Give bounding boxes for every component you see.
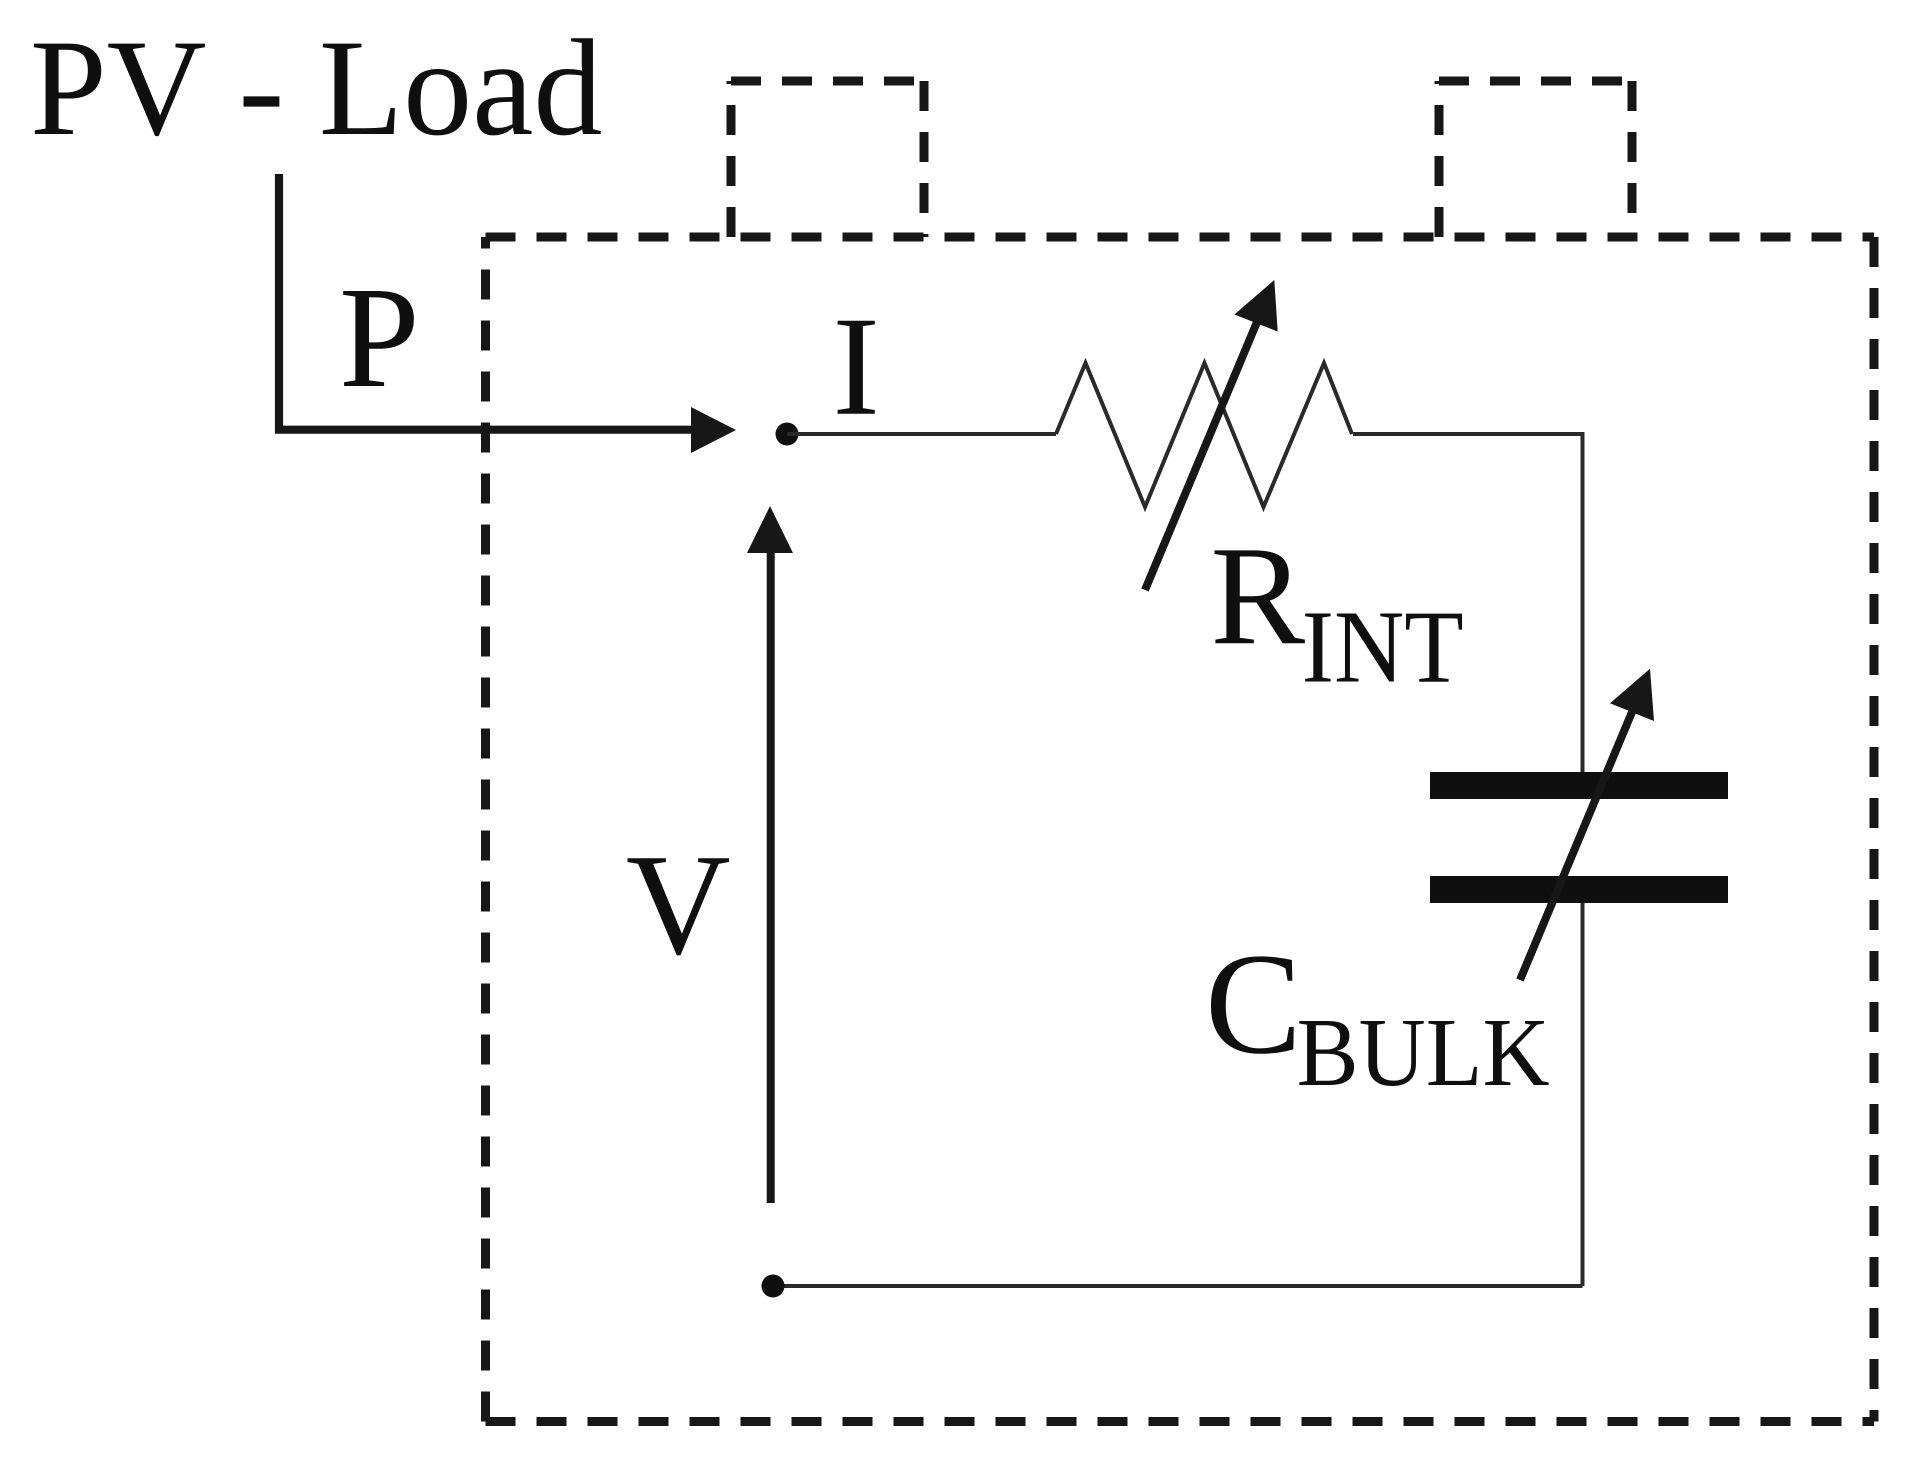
capacitor CBULK top plate	[1430, 772, 1728, 799]
node I (top terminal dot)	[776, 423, 799, 446]
power input arrow P (elbow wire)	[279, 174, 694, 430]
svg-text:V: V	[626, 825, 731, 985]
bottom node dot	[762, 1275, 785, 1298]
svg-text:I: I	[833, 287, 880, 445]
battery terminal tab right (dashed)	[1439, 81, 1632, 237]
svg-text:INT: INT	[1302, 590, 1464, 705]
bottom rail wire	[773, 1284, 1583, 1288]
variable-capacitor arrow through CBULK	[1520, 712, 1632, 980]
variable-resistor arrow through RINT	[1145, 322, 1257, 590]
wire node I to resistor	[787, 432, 1056, 436]
battery outline (dashed box)	[486, 237, 1875, 1422]
wire resistor to capacitor top	[1353, 434, 1583, 772]
voltage arrow V shaft	[767, 550, 775, 1203]
capacitor CBULK bottom plate	[1430, 876, 1728, 903]
arrowhead of V	[747, 506, 793, 553]
svg-text:PV - Load: PV - Load	[30, 11, 602, 164]
svg-text:P: P	[339, 258, 420, 418]
resistor RINT zigzag	[1056, 363, 1352, 507]
battery terminal tab left (dashed)	[731, 81, 924, 237]
svg-text:C: C	[1205, 924, 1302, 1084]
svg-text:R: R	[1210, 516, 1305, 674]
wire capacitor bottom to bottom rail	[1581, 903, 1585, 1286]
arrowhead of P	[691, 407, 736, 453]
svg-text:BULK: BULK	[1297, 999, 1550, 1106]
